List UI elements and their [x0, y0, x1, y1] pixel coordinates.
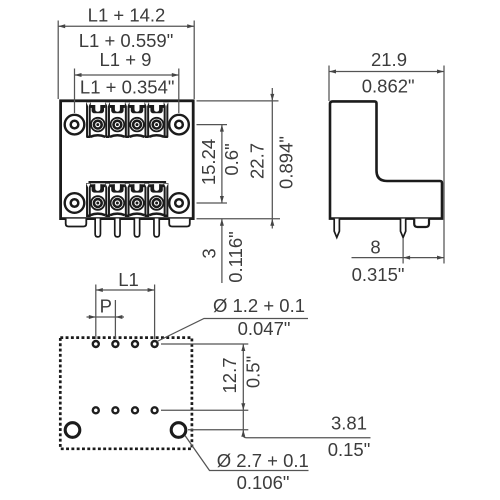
right ext line row1	[197, 124, 228, 126]
pcb pin hole row1-2	[112, 341, 118, 347]
dim 8 line	[352, 257, 445, 259]
right ext line body top	[197, 100, 279, 102]
dotted outline	[60, 338, 192, 449]
side pin 2	[401, 219, 406, 238]
mounting circle top-right	[169, 115, 189, 135]
arrows 21.9	[329, 70, 336, 74]
dim 21.9 ext right (continues down for dim 8)	[443, 66, 445, 264]
svg-text:15.24: 15.24	[198, 139, 219, 185]
side view dimensions	[329, 66, 444, 264]
12.7 ext top	[161, 343, 248, 345]
arrows 15.24	[220, 125, 224, 132]
pcb pin hole row2-3	[132, 407, 138, 413]
arrow 3 (outside, below pointing up)	[220, 219, 224, 226]
front solder pin 3	[134, 219, 139, 237]
leader dia 2.7	[185, 436, 309, 471]
arrows L1	[96, 288, 103, 292]
terminal jar 3 (bottom row)	[130, 184, 145, 216]
bottom strip top line	[89, 181, 167, 183]
terminal jar 4 (top row)	[149, 103, 164, 137]
arrows 12.7	[241, 344, 245, 351]
pcb pin hole row2-2	[112, 407, 118, 413]
svg-text:L1 + 14.2: L1 + 14.2	[88, 5, 166, 26]
front solder pin 4	[154, 219, 159, 237]
top strip end bar right	[164, 102, 169, 138]
terminal jar 1 (bottom row)	[90, 184, 105, 216]
connector body outline	[61, 101, 194, 219]
front solder pin 2	[115, 219, 120, 237]
svg-text:3.81: 3.81	[331, 413, 367, 434]
pcb pin hole row1-4	[152, 341, 158, 347]
right ext line body bottom	[197, 218, 281, 220]
left foot	[66, 219, 87, 227]
svg-text:22.7: 22.7	[247, 143, 268, 179]
dim L1+9 extension lines	[74, 69, 76, 114]
mounting circle top-left	[65, 115, 85, 135]
svg-text:P: P	[100, 296, 112, 317]
P ext line (2nd hole)	[114, 300, 116, 339]
dim 21.9 ext left	[328, 66, 330, 102]
svg-text:L1 + 0.559": L1 + 0.559"	[79, 30, 174, 51]
svg-text:0.116": 0.116"	[225, 231, 246, 283]
svg-text:3: 3	[199, 248, 220, 258]
terminal jar 1 (top row)	[90, 103, 105, 137]
svg-text:Ø 1.2 + 0.1: Ø 1.2 + 0.1	[213, 295, 305, 316]
svg-text:0.047": 0.047"	[238, 318, 291, 339]
top strip separator bar 2	[125, 102, 130, 138]
arrows L1+9	[75, 73, 82, 77]
svg-text:0.106": 0.106"	[237, 472, 290, 493]
bottom strip separator bar 3	[144, 183, 149, 217]
svg-text:0.862": 0.862"	[362, 76, 415, 97]
dim L1+14.2 line	[58, 25, 194, 27]
3.81 ext line from big hole	[188, 429, 248, 431]
top strip end bar left	[86, 102, 91, 138]
pcb pin hole row2-1	[93, 407, 99, 413]
12.7 ext mid	[161, 409, 248, 411]
3.81 landing line	[243, 430, 370, 438]
dim 21.9 line	[329, 71, 444, 73]
terminal jar 2 (bottom row)	[110, 184, 125, 216]
top strip separator bar 1	[105, 102, 110, 138]
dim 15.24 line	[221, 125, 223, 203]
L1 ext lines	[95, 285, 97, 340]
dim 3 line	[221, 219, 223, 283]
leader dia 1.2	[157, 319, 308, 342]
arrows L1+14.2	[58, 24, 65, 28]
svg-text:L1 + 9: L1 + 9	[100, 49, 152, 70]
dim 22.7 line	[271, 88, 273, 229]
svg-text:0.894": 0.894"	[276, 136, 297, 189]
L-shaped body profile	[330, 101, 442, 218]
dim L1+14.2 extension lines	[57, 21, 59, 100]
dim 8 ext line at pin	[402, 239, 404, 264]
terminal jar 2 (top row)	[110, 103, 125, 137]
bottom strip separator bar 2	[125, 183, 130, 217]
side bottom tab	[414, 219, 429, 227]
svg-text:0.6": 0.6"	[221, 143, 242, 175]
pcb pin hole row1-1	[93, 341, 99, 347]
L1 dim line	[96, 289, 155, 291]
terminal jar 4 (bottom row)	[149, 184, 164, 216]
terminal jar 3 (top row)	[130, 103, 145, 137]
pcb pin hole row1-3	[132, 341, 138, 347]
svg-text:L1 + 0.354": L1 + 0.354"	[80, 77, 175, 98]
svg-text:0.315": 0.315"	[352, 264, 405, 285]
front solder pin 1	[95, 219, 100, 237]
svg-text:21.9: 21.9	[371, 49, 407, 70]
right ext line row2	[197, 202, 228, 204]
P dim line	[87, 316, 125, 318]
12.7 / 3.81 dim line	[242, 344, 244, 430]
arrow 3.81 bottom (outside pointing up)	[241, 430, 245, 437]
svg-text:0.5": 0.5"	[243, 356, 264, 388]
arrows 22.7 (outside)	[270, 94, 274, 101]
svg-text:8: 8	[370, 237, 380, 258]
svg-text:L1: L1	[118, 269, 139, 290]
top strip separator bar 3	[144, 102, 149, 138]
mounting circle bottom-right	[169, 193, 189, 213]
arrows P (outside)	[89, 315, 96, 319]
pcb mounting hole left	[65, 423, 80, 438]
dim L1+9 line	[75, 74, 179, 76]
svg-text:Ø 2.7 + 0.1: Ø 2.7 + 0.1	[217, 450, 309, 471]
bottom strip end bar right	[164, 183, 169, 217]
pcb pin hole row2-4	[152, 407, 158, 413]
arrows 8	[403, 256, 410, 260]
svg-text:12.7: 12.7	[219, 357, 240, 393]
right foot	[169, 219, 190, 227]
mounting circle bottom-left	[65, 193, 85, 213]
side pin 1	[334, 219, 339, 238]
svg-text:0.15": 0.15"	[328, 439, 371, 460]
pcb mounting hole right	[171, 423, 186, 438]
bottom strip end bar left	[86, 183, 91, 217]
bottom strip separator bar 1	[105, 183, 110, 217]
bottom view dimensions	[87, 285, 371, 471]
